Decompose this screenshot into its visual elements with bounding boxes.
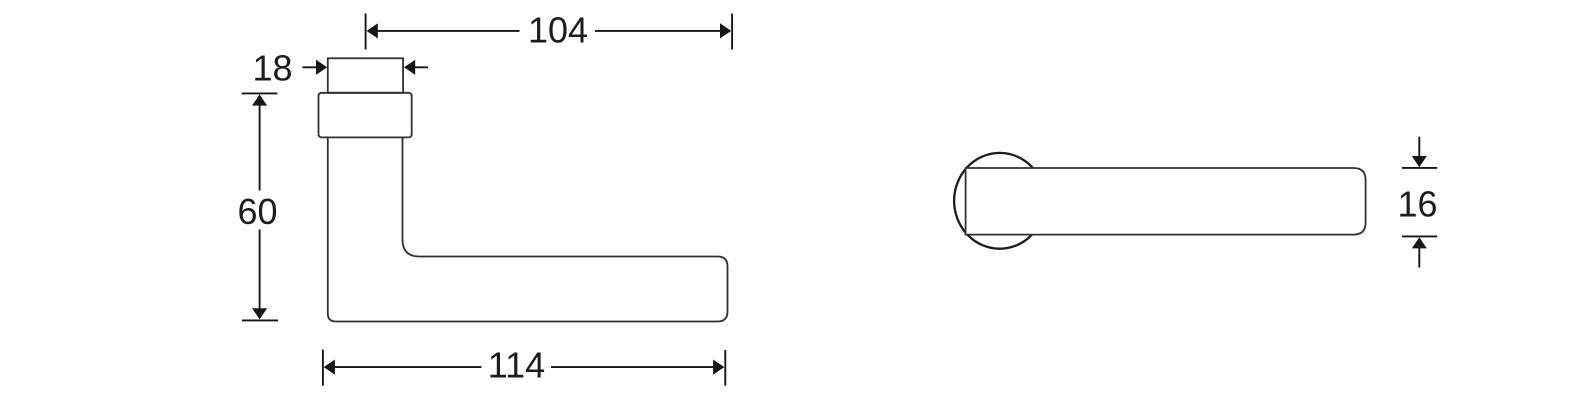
svg-text:114: 114 — [488, 345, 545, 386]
dim 18 left arrow — [302, 60, 327, 75]
dim 104 left arrow — [367, 23, 520, 38]
dim 16 bottom arrow — [1412, 237, 1427, 267]
dim 18 label — [252, 47, 292, 88]
svg-text:18: 18 — [252, 47, 292, 88]
dim 104 left tick — [365, 14, 367, 50]
svg-text:16: 16 — [1397, 184, 1437, 225]
dim 60 bottom arrow — [252, 230, 267, 320]
dim 60 label — [237, 191, 277, 232]
svg-text:104: 104 — [528, 10, 588, 51]
dim 114 left arrow — [324, 360, 482, 375]
dim 104 label — [528, 10, 588, 51]
lever front view bar — [966, 168, 1366, 235]
dim 60 top tick — [242, 92, 278, 94]
dim 18 right arrow — [404, 60, 428, 75]
dim 16 label — [1397, 184, 1437, 225]
dim 60 bottom tick — [242, 319, 278, 321]
dim 16 top arrow — [1412, 137, 1427, 168]
dim 16 top tick — [1402, 167, 1437, 169]
dim 114 right arrow — [551, 360, 724, 375]
dim 104 right tick — [731, 14, 733, 50]
rose front view circle — [954, 153, 1045, 249]
handle side-view L profile — [328, 137, 728, 322]
dim 114 label — [488, 345, 545, 386]
neck side view — [328, 58, 403, 93]
rose collar side view — [319, 93, 412, 138]
dim 16 bottom tick — [1402, 235, 1437, 237]
dim 60 top arrow — [252, 94, 267, 190]
svg-text:60: 60 — [237, 191, 277, 232]
dim 114 right tick — [724, 350, 726, 386]
dim 104 right arrow — [595, 23, 731, 38]
dim 114 left tick — [322, 350, 324, 386]
